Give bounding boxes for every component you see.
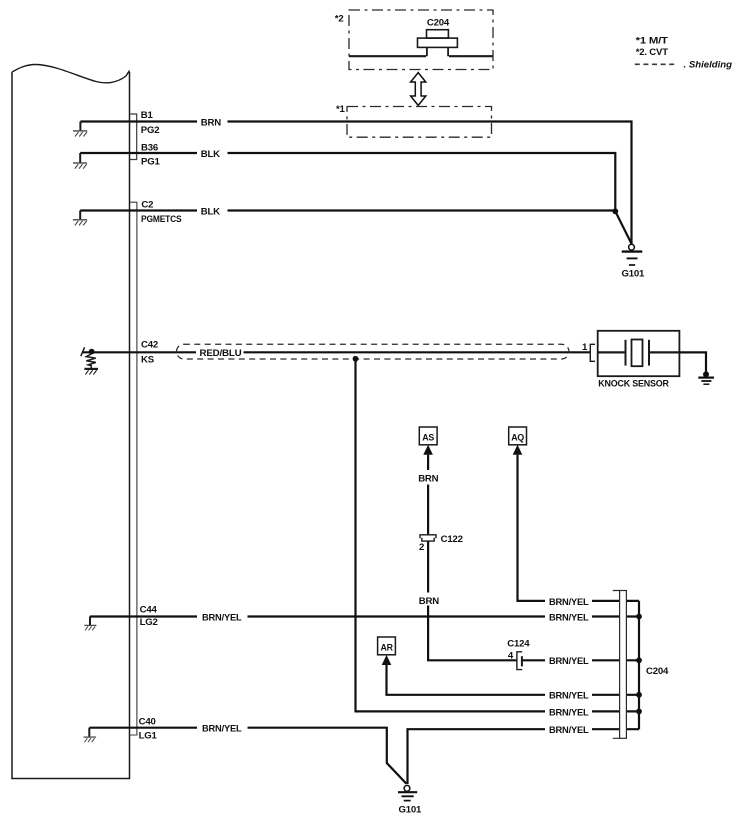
internal shield ground w/ coil (pin C42) (81, 347, 98, 374)
connector AQ box (509, 427, 527, 445)
svg-text:AQ: AQ (511, 433, 524, 443)
wire C2 BLK (80, 209, 615, 211)
bus junction dots (636, 614, 642, 620)
svg-text:LG2: LG2 (140, 617, 158, 628)
svg-text:G101: G101 (399, 804, 423, 815)
svg-text:BRN/YEL: BRN/YEL (549, 725, 589, 736)
wire C124 to C204 (522, 659, 639, 661)
ECM/PCM module outline (torn wavy top) (12, 64, 130, 778)
shield drain wire (down) (356, 359, 640, 712)
connector AS box (419, 427, 437, 445)
svg-text:*2: *2 (335, 14, 344, 25)
svg-text:BRN/YEL: BRN/YEL (549, 691, 589, 702)
ground G101 (upper right) (622, 244, 643, 265)
connector C204 (bottom right) (613, 591, 627, 739)
connector C122 (420, 535, 436, 541)
shield junction dot (353, 356, 359, 362)
svg-text:C124: C124 (507, 638, 530, 649)
svg-text:B1: B1 (141, 110, 154, 121)
svg-text:KS: KS (141, 355, 155, 366)
knock sensor box (598, 331, 680, 376)
svg-text:BRN: BRN (418, 473, 438, 484)
svg-text:4: 4 (508, 650, 514, 661)
internal ground (pin C2) (73, 211, 87, 226)
svg-text:BRN/YEL: BRN/YEL (549, 612, 589, 623)
C204 bus (638, 601, 640, 729)
internal ground (pin B36) (73, 153, 87, 169)
internal ground (pin B1) (73, 122, 87, 137)
junction dot BLK wires (612, 208, 618, 214)
connector C204 plug symbol (top) (349, 30, 493, 57)
svg-text:. Shielding: . Shielding (684, 60, 733, 71)
svg-text:BLK: BLK (201, 149, 220, 160)
wire C44 BRN/YEL (90, 615, 639, 617)
svg-text:PG2: PG2 (141, 125, 160, 136)
svg-text:PG1: PG1 (141, 157, 160, 168)
wire C40 BRN/YEL (89, 728, 406, 784)
svg-text:BRN: BRN (419, 596, 439, 607)
double-headed arrow (M/T <-> CVT) (411, 73, 426, 106)
arrow into AQ (513, 445, 523, 455)
ground G101 (bottom) (398, 785, 417, 800)
svg-text:2: 2 (419, 542, 424, 553)
wire B1 BRN (internal + external) (80, 122, 631, 245)
knock sensor pin 1 bracket (590, 344, 595, 361)
svg-text:C42: C42 (141, 340, 158, 351)
svg-text:C40: C40 (139, 717, 156, 728)
internal ground (pin C40) (84, 728, 97, 743)
svg-text:BRN/YEL: BRN/YEL (549, 656, 589, 667)
wire BRN to AS (427, 455, 429, 535)
svg-text:AR: AR (381, 643, 394, 653)
connector C124 (517, 652, 522, 670)
svg-text:BLK: BLK (201, 206, 220, 217)
svg-text:*1 M/T: *1 M/T (636, 35, 668, 46)
svg-text:C2: C2 (141, 200, 153, 211)
svg-text:C44: C44 (140, 605, 158, 616)
legend shielding dashes (635, 63, 674, 65)
svg-text:C204: C204 (427, 18, 450, 29)
ECM pin connector strip 1 (pins B1, B36) (130, 114, 137, 160)
internal ground (pin C44) (84, 617, 96, 631)
svg-text:C204: C204 (646, 666, 669, 677)
arrow into AS (423, 445, 433, 455)
wire C42 RED/BLU (82, 351, 590, 353)
svg-text:PGMETCS: PGMETCS (141, 214, 182, 225)
ECM pin connector strip 2 (pins C2..C40) (130, 202, 137, 735)
knock sensor case ground (679, 352, 714, 384)
svg-text:1: 1 (582, 342, 588, 353)
svg-text:BRN/YEL: BRN/YEL (549, 597, 589, 608)
knock sensor element (598, 340, 680, 367)
connector AR box (378, 637, 396, 655)
svg-text:*1: *1 (336, 104, 346, 115)
svg-text:BRN/YEL: BRN/YEL (549, 707, 589, 718)
svg-text:*2. CVT: *2. CVT (636, 47, 669, 58)
wire B36 BLK (80, 153, 615, 211)
wire AR to C204 (387, 665, 640, 695)
shielded box *2 (CVT) (349, 10, 493, 70)
svg-text:BRN: BRN (201, 117, 221, 128)
svg-text:LG1: LG1 (139, 730, 158, 741)
wire AQ to C204 (518, 455, 640, 601)
svg-text:BRN/YEL: BRN/YEL (202, 724, 242, 735)
svg-text:RED/BLU: RED/BLU (200, 348, 242, 359)
wire BRN below C122 (428, 541, 517, 660)
wire junction to ground G101 (615, 211, 631, 244)
svg-text:KNOCK SENSOR: KNOCK SENSOR (598, 379, 669, 390)
svg-text:C122: C122 (441, 534, 463, 545)
arrow into AR (382, 655, 392, 665)
svg-text:G101: G101 (622, 269, 646, 280)
svg-text:BRN/YEL: BRN/YEL (202, 612, 242, 623)
shielding (dashed) around KS wire (177, 344, 570, 359)
svg-text:AS: AS (422, 433, 434, 443)
shielded box *1 (M/T) (347, 107, 492, 138)
wire G101 riser to C204 (408, 729, 640, 784)
